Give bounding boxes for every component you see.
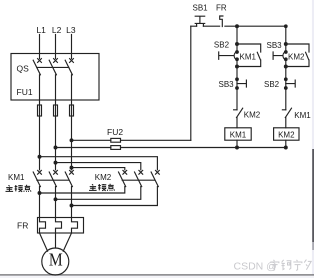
wire FR to motor left: [40, 233, 48, 251]
wire KM1 pole2 down to FR: [55, 187, 57, 218]
contact KM2 NC interlock left branch: [234, 108, 243, 128]
button SB3 NC contact: [236, 78, 247, 89]
relay FR NC contact label: [216, 4, 227, 13]
svg-text:QS: QS: [17, 64, 30, 74]
contactor KM2 main contact pole 2: [135, 170, 143, 186]
wire KM1 pole1 down to FR: [39, 187, 41, 218]
junction L3 to KM2 feed: [70, 166, 73, 169]
wire KM2 pole1 output cross to L1: [40, 187, 125, 193]
motor M letter: [49, 250, 63, 270]
svg-text:M: M: [49, 250, 63, 270]
fuse FU1 pole 3: [70, 105, 74, 116]
junction top rail right corner: [285, 25, 288, 28]
contactor KM2 label: [95, 173, 112, 182]
junction loop bottom KM2 aux: [284, 65, 287, 68]
wire KM1 branch upper: [236, 26, 238, 52]
junction L3 to FU2 top: [70, 139, 73, 142]
contactor KM2 main contact pole 1: [119, 170, 127, 186]
fuse FU2 upper: [111, 138, 121, 142]
button SB3 NO contact right branch: [273, 51, 287, 61]
svg-text:KM2: KM2: [278, 131, 295, 140]
wire L2 tap through FU2 lower fuse to control bottom rail: [56, 147, 286, 149]
contact KM2 interlock label: [244, 111, 261, 120]
contactor KM2 main contact pole 3: [151, 170, 159, 186]
wire KM1 coil to bottom rail: [236, 140, 238, 147]
wire L1 FU1 to KM1 contact: [39, 116, 41, 170]
junction loop top KM2 aux: [284, 43, 287, 46]
svg-text:KM1: KM1: [8, 173, 25, 182]
switch QS linkage bar: [37, 66, 69, 68]
label KM1 main contacts chinese 主接点: [6, 185, 32, 192]
switch QS pole 1: [33, 59, 41, 75]
fuse FU1 pole 1: [38, 105, 42, 116]
wire L2 feed to KM2 middle pole: [56, 163, 141, 170]
switch QS label: [17, 64, 30, 74]
relay FR heater element 1: [40, 218, 46, 234]
coil KM2: [274, 128, 299, 140]
junction L2 to FU2 bottom: [54, 146, 57, 149]
svg-text:SB2: SB2: [264, 80, 280, 89]
wire L3 feed to KM2 left pole: [72, 168, 125, 170]
watermark CSDN: [234, 261, 277, 273]
wire L2 QS to FU1: [55, 75, 57, 105]
fuse FU1 label: [17, 87, 33, 97]
relay FR NC contact: [220, 16, 223, 27]
wire KM2 branch middle: [285, 59, 287, 110]
svg-text:SB1: SB1: [193, 4, 209, 13]
contactor KM1 main contact pole 3: [65, 170, 73, 186]
button SB2 label left branch: [214, 40, 230, 49]
button SB2 NC contact right branch: [285, 78, 296, 89]
wire KM2 branch upper: [285, 26, 287, 52]
junction KM2 coil bottom rail: [284, 146, 287, 149]
contactor KM1 label: [8, 173, 25, 182]
wire L3 down to QS: [71, 35, 73, 59]
junction KM2 out2 on L2: [54, 198, 57, 201]
junction loop bottom KM1 aux: [236, 65, 239, 68]
junction KM2 out3 on L3: [70, 204, 73, 207]
fuse FU2 lower: [111, 146, 121, 150]
relay FR heater box: [38, 218, 84, 234]
svg-text:L2: L2: [52, 25, 62, 35]
junction KM2 out1 on L1: [38, 192, 41, 195]
node L3 label: [66, 25, 76, 35]
button SB2 NO contact: [219, 51, 239, 61]
junction KM1 coil bottom rail: [236, 146, 239, 149]
enclosure box QS/FU1: [11, 54, 99, 101]
wire L3 QS to FU1: [71, 75, 73, 105]
label KM2 main contacts chinese 主接点: [89, 184, 115, 191]
svg-text:L3: L3: [66, 25, 76, 35]
svg-text:KM1: KM1: [240, 53, 257, 62]
control left rail: [190, 26, 192, 140]
svg-text:FU1: FU1: [17, 87, 33, 97]
junction L2 to KM2 feed: [54, 161, 57, 164]
contact KM2 aux label: [288, 53, 305, 62]
svg-text:KM2: KM2: [244, 111, 261, 120]
wire KM1 pole3 down to FR: [71, 187, 73, 218]
svg-text:FR: FR: [216, 4, 227, 13]
relay FR label: [17, 221, 28, 231]
svg-text:SB3: SB3: [267, 41, 283, 50]
button SB1 label: [193, 4, 209, 13]
node L2 label: [52, 25, 62, 35]
svg-text:SB2: SB2: [214, 40, 230, 49]
svg-text:KM1: KM1: [230, 131, 247, 140]
svg-text:SB3: SB3: [219, 80, 235, 89]
button SB3 label left branch: [219, 80, 235, 89]
switch QS pole 3: [65, 59, 73, 75]
svg-text:KM2: KM2: [95, 173, 112, 182]
junction L1 to KM2 feed: [38, 155, 41, 158]
svg-text:FU2: FU2: [107, 127, 123, 137]
control top rail segments: [191, 25, 286, 27]
wire L2 down to QS: [55, 35, 57, 59]
contact KM1 aux label: [240, 53, 257, 62]
wire FR to motor right: [63, 233, 71, 251]
wire KM2 pole3 output cross to L3: [72, 187, 158, 206]
wire KM2 coil to bottom rail: [285, 140, 287, 147]
contact KM2 auxiliary NO self-hold: [286, 44, 309, 67]
junction top rail to KM1 branch: [236, 25, 239, 28]
svg-text:FR: FR: [17, 221, 28, 231]
motor M circle: [42, 248, 69, 275]
button SB3 label right branch: [267, 41, 283, 50]
contactor KM2 linkage bar: [122, 179, 155, 181]
wire KM2 pole2 output cross to L2: [56, 187, 141, 200]
watermark chinese 宇钶宇夕: [270, 260, 311, 271]
wire L1 down to QS: [39, 35, 41, 59]
button SB1 stop NC contact: [195, 16, 205, 26]
relay FR heater element 3: [72, 218, 78, 234]
wire L3 tap to FU2 upper fuse to control rail: [72, 139, 191, 141]
contactor KM1 main contact pole 1: [33, 170, 41, 186]
wire FR to motor middle: [55, 233, 57, 248]
relay FR heater element 2: [56, 218, 62, 234]
button SB2 label right branch: [264, 80, 280, 89]
contactor KM1 linkage bar: [37, 179, 69, 181]
switch QS pole 2: [49, 59, 57, 75]
node L1 label: [36, 25, 46, 35]
wire KM1 branch middle: [236, 59, 238, 110]
fuse FU1 pole 2: [54, 105, 58, 116]
svg-text:KM2: KM2: [288, 53, 305, 62]
wire L1 QS to FU1: [39, 75, 41, 105]
wire L1 feed to KM2 right pole: [40, 157, 158, 170]
contact KM1 interlock label: [294, 111, 311, 120]
contact KM1 NC interlock right branch: [282, 108, 291, 128]
wire L3 FU1 to KM1 contact: [71, 116, 73, 170]
svg-text:KM1: KM1: [294, 111, 311, 120]
svg-text:L1: L1: [36, 25, 46, 35]
contactor KM1 main contact pole 2: [49, 170, 57, 186]
junction loop top KM1 aux: [236, 43, 239, 46]
fuse FU2 label: [107, 127, 123, 137]
wire L2 FU1 to KM1 contact: [55, 116, 57, 170]
contact KM1 auxiliary NO self-hold: [237, 44, 261, 67]
coil KM1: [225, 128, 251, 140]
